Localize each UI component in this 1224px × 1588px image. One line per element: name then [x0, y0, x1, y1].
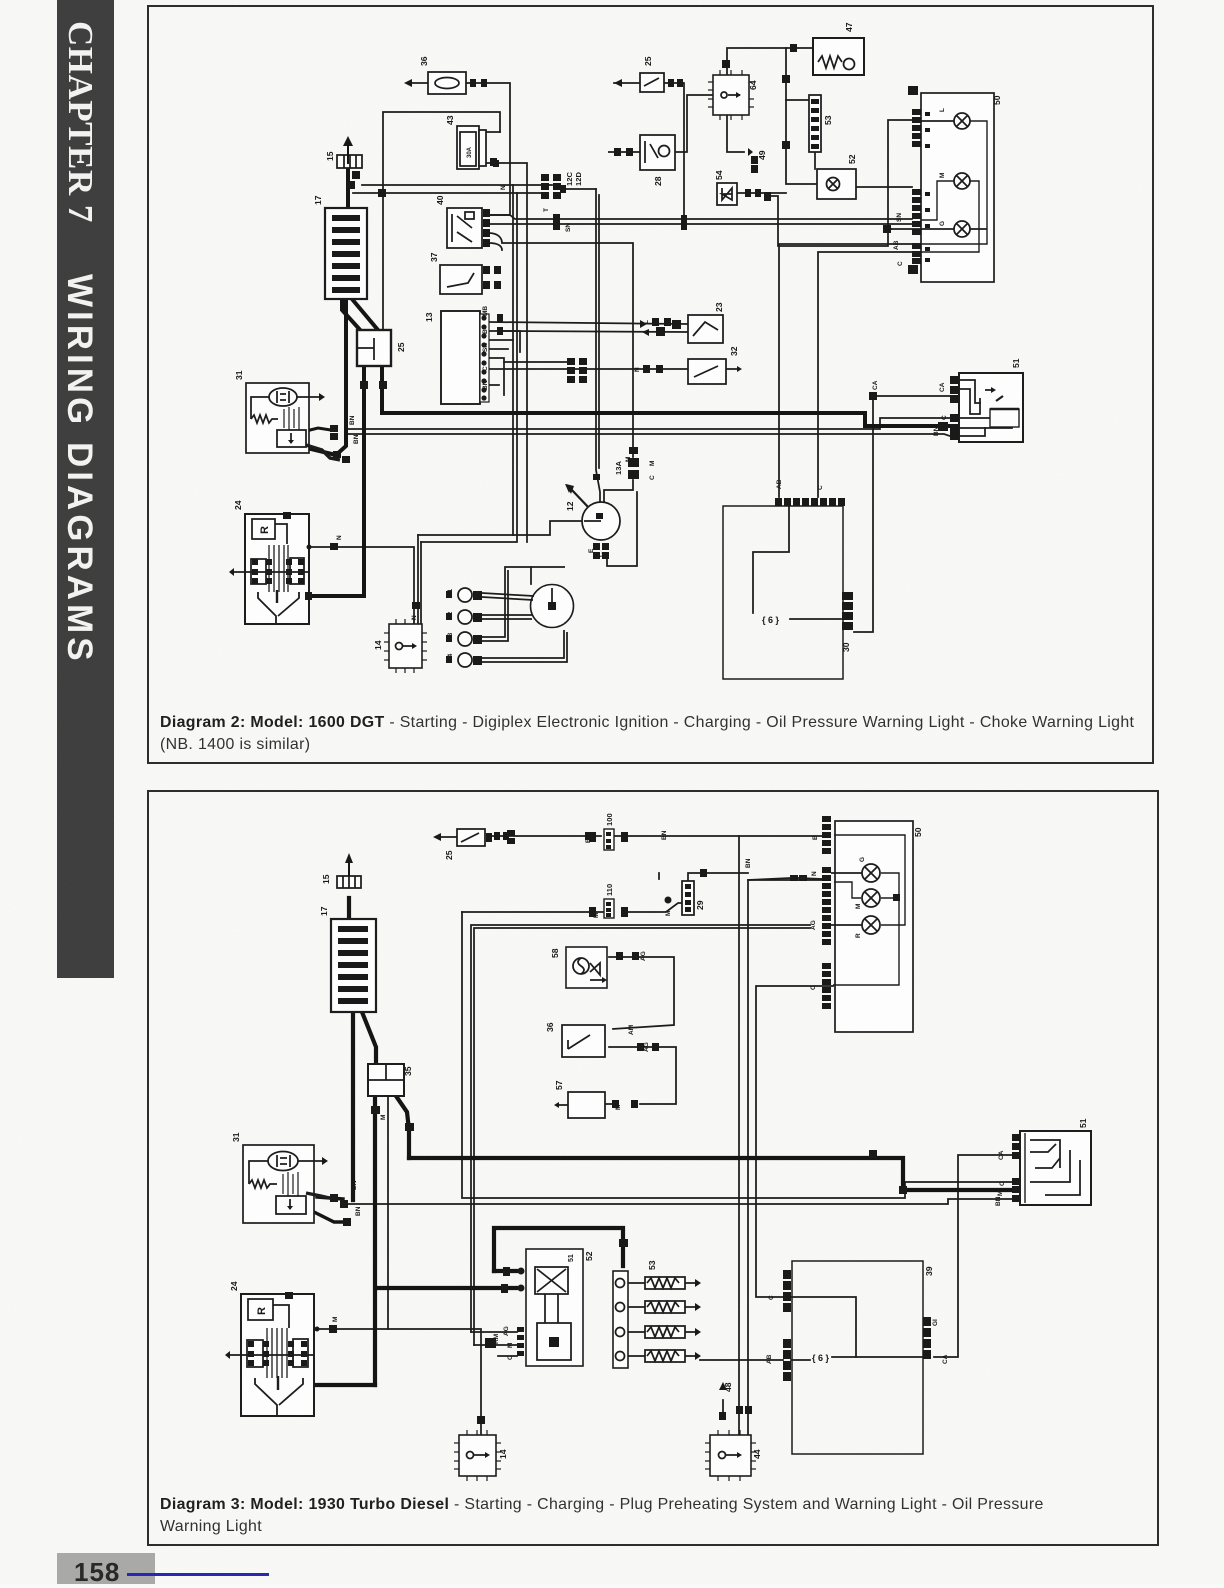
choke unit 52 [817, 169, 856, 199]
thick wire 17 to starter [311, 299, 346, 455]
wire 100 to panel B [613, 835, 822, 837]
thick starter upper exit [306, 428, 331, 431]
wire 13 pin to 12B [504, 361, 567, 363]
wire vertical x462 to 51 [462, 912, 1012, 1198]
thick wire 15 to 17 [346, 168, 350, 208]
spark plug 3 [458, 632, 472, 646]
switch 25b top [640, 73, 664, 92]
thick to 52 lower [377, 1286, 516, 1290]
warning lamp G [954, 221, 970, 237]
sender 47 [813, 38, 864, 75]
spark plug 2 [458, 610, 472, 624]
connector 13A [628, 458, 639, 479]
wire CA 51 to 39 [934, 1155, 1012, 1357]
wire 53 to 52 [814, 152, 816, 169]
wire 25b to vertical 684 [664, 83, 684, 219]
connector 110 [604, 899, 614, 918]
thick 35 left pin down [373, 1096, 377, 1385]
wire riser pair to 14 [417, 535, 419, 624]
warning lamp L [954, 113, 970, 129]
wire AG riser x474 [474, 928, 810, 1345]
relay 35 [368, 1064, 404, 1096]
wire 57 right stub [605, 1103, 614, 1105]
wire 43 bottom pin [486, 163, 527, 542]
thick 35 to main bus [396, 1096, 409, 1158]
thick diag 17 to 35 [362, 1012, 376, 1064]
wire 13A to module 12 [604, 480, 633, 503]
instrument panel 50 [835, 821, 913, 1032]
fuse 36 [428, 72, 466, 94]
wire panel N down x748 [748, 880, 822, 1435]
connector 30 [842, 592, 853, 630]
fusebox 17 [331, 919, 376, 1012]
wire 52 to panel [856, 186, 912, 188]
diagram 2 frame [147, 5, 1154, 764]
thick 31 lower exit [314, 1212, 343, 1222]
wire panel AB down [779, 244, 913, 497]
module 64 [713, 75, 749, 115]
wire 39 inner lower [791, 1359, 810, 1361]
thick wire 17 to 25 right [352, 299, 378, 330]
thick 24 bottom link [317, 1383, 375, 1387]
fuel gauge 23 [688, 315, 723, 343]
wire 25b arrow stub [614, 82, 640, 84]
connector blocks misc [470, 79, 476, 87]
spark plug 1 [458, 588, 472, 602]
connector 29 [682, 881, 694, 915]
thick wire 17 to 25 left [342, 299, 362, 332]
alternator 51 [1020, 1131, 1091, 1205]
wire 28 left [608, 151, 640, 153]
wire 48 stub [722, 1400, 724, 1412]
wire 40 pin4 curve [489, 243, 502, 250]
wire module 12 return [607, 492, 637, 566]
thick wire 25 right pin to bus [380, 366, 384, 411]
panel strips [822, 816, 831, 1009]
wire 29 left stub [658, 873, 660, 879]
alternator 51 [959, 373, 1023, 442]
wire 36 lower to 57 [609, 1047, 676, 1104]
wire pair lower to 51 [343, 1199, 1012, 1204]
wire C from panel to 39 [756, 986, 833, 1297]
connector BN blocks [790, 875, 807, 881]
sender 57 [568, 1092, 605, 1118]
wire 36 to node [466, 83, 510, 215]
wire H2 lower drop [421, 193, 517, 542]
wire 35 mid down [387, 1097, 389, 1329]
wire drop to module [513, 521, 582, 535]
distributor cap 18 [531, 585, 574, 628]
connector 12B 12E [567, 358, 587, 383]
lamp M [862, 889, 880, 907]
wire CA from 51 down to 30 [854, 396, 950, 632]
arrowheads [433, 833, 441, 841]
wire thin double from 31 lower [347, 434, 950, 436]
arrow 15 up [348, 860, 350, 876]
suppressor 14 [459, 1435, 496, 1476]
thick main bus [382, 413, 950, 426]
starter lower exit curve [306, 445, 340, 460]
connector 100 [604, 829, 614, 850]
arrowheads [404, 79, 412, 87]
wire 64 top to 47 [727, 48, 813, 75]
wire AG riser x471 [471, 925, 810, 1332]
wire cap top stub [530, 567, 532, 584]
thick stub 52 top pin [494, 1269, 516, 1273]
chapter sidebar [57, 0, 114, 978]
wire 24 upper pin to 14 [311, 547, 414, 624]
suppressor 14 pin ticks [384, 619, 427, 673]
ignition module 12 [582, 502, 620, 540]
wire vertical 596 to module 12 [596, 189, 600, 503]
preheat unit 52 [526, 1249, 583, 1366]
relay 28 [640, 135, 675, 170]
wire 40 pin3 curve [489, 233, 633, 457]
thick C loop to 53 [494, 1228, 623, 1271]
wire choke junction [888, 228, 891, 230]
wire 24 upper pin to 14 [317, 1329, 481, 1435]
wire BN into panel [748, 878, 790, 880]
ECU 13 [441, 311, 480, 404]
panel connector strips [908, 86, 930, 274]
wire 12D to node 599 [560, 188, 596, 190]
wire vertical 599 pair [598, 195, 600, 468]
starter motor 31 [246, 383, 309, 453]
wire 39 inner [791, 1297, 856, 1357]
ignition key 15 [337, 155, 362, 168]
wire branch to 53 [786, 99, 809, 101]
wire 40 to panel lower [490, 223, 912, 225]
wire H2 upper drop [418, 185, 513, 535]
ground symbol 6 [812, 1353, 830, 1363]
wire 13 to 23 [489, 322, 688, 324]
wire 40 to panel upper [490, 215, 912, 219]
connector blocks misc [494, 832, 500, 840]
wire 29 top chain [688, 873, 748, 881]
thick wire 17 to 35 [351, 1012, 355, 1200]
wire 47 branch down [786, 48, 817, 184]
wire 110 right to 29 [628, 903, 682, 912]
fusebox 17 [325, 208, 367, 299]
thick starter exits [317, 1197, 343, 1199]
wire choke chain 54-panel [771, 120, 912, 246]
glow plug resistors [628, 1277, 701, 1362]
wire module 12 arrow line [571, 489, 589, 508]
wire 58 top chain [609, 957, 674, 1029]
diagram 3 frame [147, 790, 1159, 1546]
wire ground6 to 30 [790, 618, 841, 620]
wire inside big box [753, 505, 789, 613]
harness top strip [775, 498, 845, 506]
lamp G [862, 864, 880, 882]
ignition coil 24 [245, 514, 309, 624]
wire M stub to 52 [474, 1344, 517, 1346]
wire 39 ground to right strip [856, 1356, 923, 1358]
gauge 37 [440, 265, 482, 294]
ignition key 15 [337, 876, 361, 888]
connector 54 [717, 183, 737, 205]
wire 13 to 23 lower [504, 331, 688, 332]
wire 43 top pin to loop [486, 131, 500, 133]
oil switch 32 [688, 359, 726, 384]
module 64 pin ticks [708, 70, 754, 120]
wire 64 bottom arrow 49 [727, 115, 744, 152]
wire C stub to 52 [498, 1355, 517, 1357]
oil switch 25 [457, 829, 485, 846]
ECU 13 pin dots [481, 315, 486, 400]
suppressor 44 ticks [705, 1430, 756, 1481]
wire thin double from 31 upper [345, 418, 950, 429]
suppressor 14 ticks [454, 1430, 501, 1481]
thick main bus to 51 [409, 1158, 1012, 1190]
glow plug relay 58 [566, 947, 607, 988]
spark plug 4 [458, 653, 472, 667]
wire branch down x739 [738, 836, 740, 1435]
suppressor 14 [389, 624, 422, 668]
wire 54 to crossing [737, 192, 786, 194]
page number 158 [57, 1553, 155, 1584]
thick wire 15 to 17 [347, 898, 351, 919]
wire panel C down [818, 252, 913, 497]
lamp R [862, 916, 880, 934]
connector 53 [809, 95, 821, 152]
wire 64 left to relay 28 [675, 95, 713, 152]
big box body harness [723, 506, 843, 679]
suppressor 44 [710, 1435, 751, 1476]
wire 110 left to vertical [462, 911, 604, 913]
wire 13 to 32 [489, 368, 688, 370]
ground symbol 6 [762, 615, 780, 625]
wire 25 arrow stub [441, 836, 456, 838]
connector pair 12 [745, 189, 771, 201]
warning lamp M [954, 173, 970, 189]
wire bus H2 upper [362, 184, 552, 186]
relay 43 [457, 126, 479, 169]
thermo switch 36 [562, 1025, 605, 1057]
wire 13 pin stubs [489, 331, 520, 352]
glow plug bar 53 [613, 1271, 628, 1368]
wire loop 383-500 [383, 112, 500, 330]
instrument panel 50 [921, 93, 994, 282]
arrow 15 up [347, 142, 349, 164]
starter motor 31 [243, 1145, 314, 1223]
ignition switch 25 [357, 330, 391, 366]
wire 36 arrow stub [410, 82, 428, 84]
thick wire 25 left pin down to coil [311, 366, 364, 596]
junction box 39 [792, 1261, 923, 1454]
wire AG stub to 52 [471, 1331, 517, 1333]
wire bus H2 lower [353, 192, 548, 194]
connector 12C 12D blocks [541, 174, 561, 199]
wire 25 to 100 [488, 835, 601, 837]
wire AB to 39 [700, 1359, 783, 1361]
ignition coil 24 [241, 1294, 314, 1416]
control unit 40 [447, 208, 482, 248]
